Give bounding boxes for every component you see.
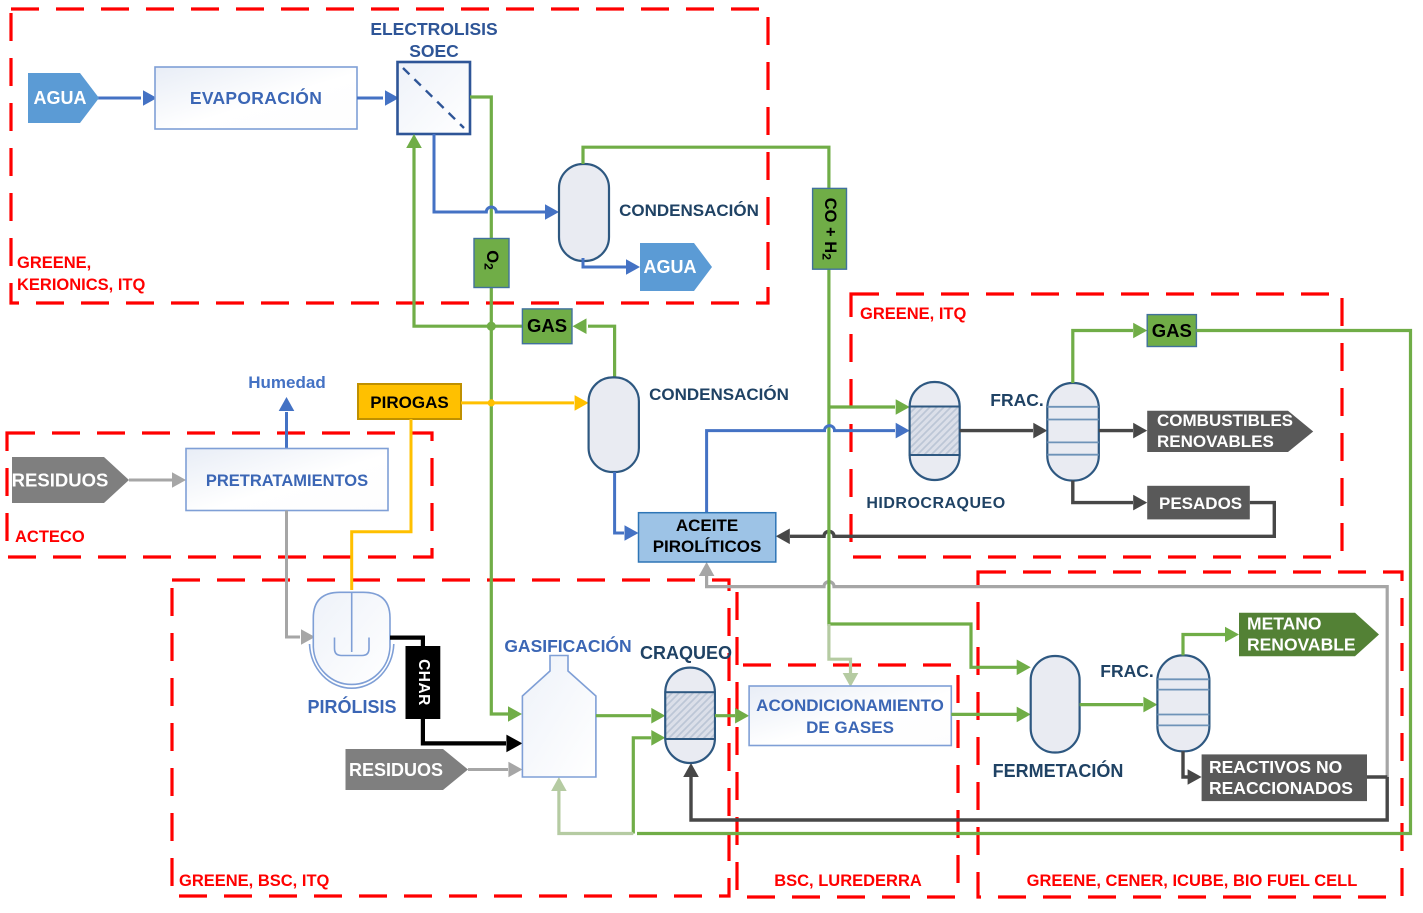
svg-text:GREENE, CENER, ICUBE, BIO FUEL: GREENE, CENER, ICUBE, BIO FUEL CELL bbox=[1027, 872, 1358, 890]
frame box GREENE ITQ bbox=[851, 294, 1342, 557]
wire fermetacion to frac2 bbox=[1080, 703, 1143, 706]
svg-text:FRAC.: FRAC. bbox=[990, 390, 1043, 410]
svg-text:ACEITE: ACEITE bbox=[676, 516, 738, 535]
column FRAC 1 bbox=[1047, 383, 1099, 481]
svg-text:HIDROCRAQUEO: HIDROCRAQUEO bbox=[866, 495, 1005, 512]
wire reactivos to recycle junction bbox=[1367, 775, 1387, 778]
input arrow RESIDUOS 2 bbox=[346, 749, 469, 790]
svg-text:AGUA: AGUA bbox=[644, 257, 697, 277]
box GAS 1 bbox=[522, 309, 572, 344]
box ACEITE PIROLITICOS bbox=[639, 513, 776, 562]
svg-text:PIRÓLISIS: PIRÓLISIS bbox=[307, 696, 396, 717]
wire aceite to hidrocraqueo blue bbox=[707, 426, 895, 513]
column CRAQUEO bbox=[665, 668, 715, 763]
svg-text:FRAC.: FRAC. bbox=[1100, 661, 1153, 681]
wire pale green to acondicionamiento bbox=[829, 624, 851, 673]
column FRAC 2 bbox=[1157, 655, 1209, 751]
wire pesados recycle to aceite bbox=[790, 503, 1274, 537]
svg-text:RESIDUOS: RESIDUOS bbox=[349, 760, 443, 780]
svg-text:CHAR: CHAR bbox=[415, 659, 432, 706]
svg-text:CONDENSACIÓN: CONDENSACIÓN bbox=[649, 385, 789, 404]
box REACTIVOS NO REACCIONADOS bbox=[1202, 754, 1367, 801]
wire frac1 to combustibles bbox=[1099, 429, 1133, 432]
unit ELECTROLISIS SOEC square bbox=[398, 62, 471, 134]
wire craqueo to acondicionamiento bbox=[715, 714, 735, 717]
wire pale green recycle to gasificacion bottom bbox=[559, 791, 633, 834]
svg-text:RENOVABLES: RENOVABLES bbox=[1157, 432, 1274, 451]
wire condensacion2 gas to GAS1 box bbox=[588, 326, 615, 377]
wire frac2 to reactivos bbox=[1183, 751, 1188, 777]
box PIROGAS bbox=[358, 384, 461, 419]
wire acondicionamiento to fermetacion bbox=[951, 713, 1017, 716]
wire hidrocraqueo to frac1 bbox=[960, 429, 1033, 432]
svg-text:PIROGAS: PIROGAS bbox=[370, 393, 448, 412]
svg-text:REACTIVOS NO: REACTIVOS NO bbox=[1209, 757, 1342, 777]
label O2 box bbox=[474, 239, 509, 288]
wire condensacion1 gas to CO+H2 line bbox=[583, 147, 829, 620]
svg-text:RENOVABLE: RENOVABLE bbox=[1247, 635, 1356, 655]
vessel CONDENSACION 1 bbox=[559, 164, 609, 261]
svg-text:METANO: METANO bbox=[1247, 614, 1322, 634]
wire bottom green recycle up into craqueo bbox=[633, 738, 651, 834]
svg-text:CRAQUEO: CRAQUEO bbox=[640, 643, 732, 663]
wire pirogas from pirolisis bbox=[352, 419, 411, 590]
svg-text:KERIONICS, ITQ: KERIONICS, ITQ bbox=[17, 276, 146, 294]
box CHAR bbox=[406, 646, 441, 719]
wire humedad up arrow bbox=[285, 412, 288, 448]
wire char to gasificacion bbox=[423, 719, 506, 743]
frame box ACTECO bbox=[7, 433, 432, 557]
frame box BSC LUREDERRA bbox=[737, 592, 958, 897]
svg-text:GAS: GAS bbox=[527, 315, 567, 336]
svg-text:CO + H2: CO + H2 bbox=[819, 198, 839, 260]
label CO+H2 box bbox=[813, 188, 847, 269]
svg-text:Humedad: Humedad bbox=[248, 373, 325, 392]
svg-text:RESIDUOS: RESIDUOS bbox=[12, 470, 109, 491]
box ACONDICIONAMIENTO DE GASES bbox=[749, 686, 951, 746]
box PRETRATAMIENTOS bbox=[186, 449, 388, 511]
wire agua to evaporacion bbox=[96, 97, 141, 100]
junction dot gas line bbox=[487, 322, 496, 331]
wire gas recycle up into electrolisis bbox=[414, 148, 522, 326]
wire residuos2 to gasificacion bbox=[468, 768, 508, 771]
wire electrolisis steam to condensacion1 bbox=[434, 134, 546, 212]
svg-text:ACONDICIONAMIENTO: ACONDICIONAMIENTO bbox=[756, 696, 944, 715]
wire pretratamientos down to pirolisis bbox=[287, 511, 301, 638]
frame box GREENE BSC ITQ bbox=[172, 580, 729, 896]
svg-text:COMBUSTIBLES: COMBUSTIBLES bbox=[1157, 411, 1293, 430]
wire evaporacion to electrolisis bbox=[357, 97, 383, 100]
wire CO+H2 branch to hidrocraqueo green bbox=[829, 405, 895, 408]
wire gray recycle reactivos to aceite bbox=[707, 576, 1388, 778]
svg-text:PIROLÍTICOS: PIROLÍTICOS bbox=[653, 537, 762, 556]
svg-text:CONDENSACIÓN: CONDENSACIÓN bbox=[619, 201, 759, 220]
svg-text:GREENE, ITQ: GREENE, ITQ bbox=[860, 305, 967, 323]
svg-text:ACTECO: ACTECO bbox=[15, 528, 85, 546]
wire frac2 to metano bbox=[1183, 635, 1225, 656]
input arrow RESIDUOS 1 bbox=[12, 457, 129, 503]
input arrow AGUA bbox=[28, 73, 99, 123]
vessel CONDENSACION 2 bbox=[589, 377, 639, 472]
box GAS 2 bbox=[1147, 315, 1196, 347]
frame box GREENE KERIONICS ITQ bbox=[11, 9, 768, 303]
svg-text:GAS: GAS bbox=[1152, 320, 1192, 341]
svg-text:ELECTROLISIS: ELECTROLISIS bbox=[370, 19, 497, 39]
wire dark recycle up into craqueo bbox=[691, 775, 1387, 820]
svg-text:EVAPORACIÓN: EVAPORACIÓN bbox=[190, 87, 322, 108]
output arrow COMBUSTIBLES RENOVABLES bbox=[1147, 411, 1313, 452]
wire CO+H2 down to fermetacion bbox=[829, 620, 1017, 667]
vessel GASIFICACION bbox=[522, 656, 596, 778]
box PESADOS bbox=[1147, 486, 1250, 520]
svg-text:FERMETACIÓN: FERMETACIÓN bbox=[993, 760, 1124, 781]
wire pirogas to condensacion2 bbox=[461, 401, 574, 404]
wire GAS2 right and down to bottom recycle bbox=[637, 331, 1411, 834]
wire electrolisis O2 down to gasificacion bbox=[470, 97, 491, 710]
frame box GREENE CENER ICUBE BIO FUEL CELL bbox=[978, 572, 1402, 897]
wire condensacion1 to agua out bbox=[583, 258, 626, 267]
svg-text:DE GASES: DE GASES bbox=[806, 718, 894, 737]
svg-text:GASIFICACIÓN: GASIFICACIÓN bbox=[504, 635, 631, 656]
wire frac1 to pesados bbox=[1073, 481, 1133, 503]
vessel FERMETACION bbox=[1031, 656, 1080, 753]
wire pirolisis to char bbox=[390, 638, 423, 648]
box EVAPORACION bbox=[155, 67, 357, 129]
svg-text:AGUA: AGUA bbox=[34, 88, 87, 108]
svg-text:GREENE, BSC, ITQ: GREENE, BSC, ITQ bbox=[179, 872, 330, 890]
output arrow AGUA out bbox=[640, 243, 712, 291]
vessel PIROLISIS bbox=[313, 592, 390, 684]
wire frac1 to GAS2 bbox=[1073, 331, 1133, 384]
svg-text:GREENE,: GREENE, bbox=[17, 254, 91, 272]
vessel HIDROCRAQUEO bbox=[910, 382, 960, 480]
svg-text:PESADOS: PESADOS bbox=[1159, 494, 1242, 513]
wire gasificacion to craqueo bbox=[596, 714, 651, 717]
svg-text:SOEC: SOEC bbox=[409, 41, 459, 61]
svg-text:REACCIONADOS: REACCIONADOS bbox=[1209, 778, 1353, 798]
svg-text:PRETRATAMIENTOS: PRETRATAMIENTOS bbox=[206, 472, 368, 490]
output arrow METANO RENOVABLE bbox=[1239, 613, 1379, 657]
wire residuos1 to pretratamientos bbox=[129, 479, 172, 482]
svg-text:BSC, LUREDERRA: BSC, LUREDERRA bbox=[774, 872, 922, 890]
wire condensacion2 to aceite bbox=[615, 472, 624, 533]
